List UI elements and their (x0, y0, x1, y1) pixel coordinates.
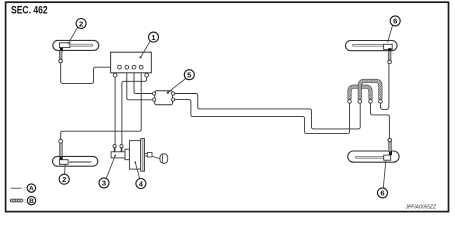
rear-right lower hose body (348, 151, 399, 162)
wire: actuator port4 to front-left lower hose (61, 69, 142, 139)
front-left lower hose body (53, 156, 98, 166)
label 2 (lower) leader (64, 164, 67, 174)
label 1 (149, 32, 159, 42)
legend coil-B symbol (10, 199, 23, 202)
master cylinder body (111, 152, 125, 158)
master cylinder port A stem (114, 148, 116, 152)
booster pushrod end block (147, 152, 152, 157)
svg-text::: : (24, 186, 26, 193)
front-left upper hose coil (59, 51, 62, 59)
U5 left-bottom port (153, 98, 156, 101)
svg-text:SEC. 462: SEC. 462 (11, 5, 48, 17)
front-left lower hose banjo fitting (59, 160, 68, 165)
wire: junction U5 right-bottom port to rear tube leg1 (174, 100, 349, 134)
label 5 leader (168, 78, 186, 92)
svg-text:6: 6 (393, 17, 397, 26)
front-left upper hose banjo fitting (60, 43, 70, 48)
wire: actuator right corner port to master cylinder port B (122, 76, 147, 145)
front-left upper hose body (53, 40, 99, 50)
rear tube U2 (hatched, legs 2 and 4) (360, 81, 381, 99)
legend line-A symbol (11, 187, 22, 189)
booster pushrod (145, 153, 148, 156)
leg1 fitting (349, 99, 351, 101)
clevis link line (152, 156, 160, 159)
svg-text:3: 3 (102, 179, 106, 188)
brake booster flange (141, 139, 145, 172)
wire: actuator port3 to junction U5 left-top port (134, 69, 152, 94)
rear-right upper hose tube (353, 44, 385, 46)
front-left lower hose end fitting (59, 139, 63, 143)
wire: actuator port1 to front-left upper hose (61, 63, 120, 84)
master cylinder port B (120, 145, 123, 148)
label 6 (lower) leader (383, 161, 386, 188)
master cylinder port B stem (121, 148, 123, 152)
label 4 (136, 179, 146, 189)
wire: junction U5 right-top port to rear tube leg2 (174, 94, 360, 129)
rear-right upper hose end fitting (388, 60, 392, 64)
rear-right lower hose fitting block (384, 155, 391, 160)
front-left upper hose end fitting (59, 59, 63, 63)
U5 right-top port (172, 92, 175, 95)
U5 right-bottom port (172, 98, 175, 101)
actuator right corner mount (145, 73, 149, 77)
label 5 (184, 70, 194, 80)
actuator left corner mount (113, 73, 117, 77)
ABS actuator U1 box (111, 52, 152, 73)
svg-text::: : (24, 198, 26, 205)
wire: rear tube leg4 up to rear-right upper hose coil (380, 64, 389, 110)
svg-text:6: 6 (380, 189, 384, 198)
svg-text:B: B (29, 198, 34, 205)
rear-right upper hose body (346, 41, 398, 51)
rear-right lower hose clamp (black) (389, 151, 392, 155)
label 6 (upper) (390, 16, 400, 26)
label 2 (lower) (59, 174, 69, 184)
rear-right lower hose end fitting (388, 138, 392, 142)
front-left upper hose clamp (black) (60, 48, 63, 52)
label 3 leader (106, 155, 115, 178)
legend label A (27, 184, 35, 192)
clevis bushing (160, 154, 168, 164)
svg-text:JPFIA0065ZZ: JPFIA0065ZZ (405, 205, 437, 211)
master cylinder port A (113, 145, 116, 148)
rear-right upper hose coil (388, 51, 391, 60)
label 4 leader (135, 162, 139, 178)
leg4 fitting (380, 99, 382, 101)
front-left upper hose tube (70, 44, 93, 46)
wire: actuator left corner port to master cylinder port A (114, 76, 116, 145)
booster connector block (125, 149, 129, 160)
rear-right lower hose tube (356, 156, 385, 158)
U5 left-top port (153, 92, 156, 95)
actuator port 4 (139, 65, 143, 69)
junction connector U5 box (155, 91, 173, 105)
label 2 (upper) leader (68, 27, 78, 44)
actuator port 2 (125, 65, 129, 69)
svg-text:2: 2 (62, 175, 66, 184)
label 6 (lower) (378, 188, 388, 198)
brake booster drum (129, 141, 140, 170)
rear-right lower hose coil (388, 142, 391, 151)
wire: rear tube leg3 down to rear-right lower hose coil (371, 104, 390, 139)
label 3 (99, 178, 109, 188)
leg3 fitting (370, 99, 372, 101)
leg2 fitting (359, 99, 361, 101)
wire: actuator port2 to junction U5 left-bottom port (127, 69, 153, 100)
rear-right upper hose fitting block (384, 44, 393, 49)
actuator port 3 (132, 65, 136, 69)
front-left lower hose clamp (black) (60, 156, 63, 160)
label 1 leader (141, 41, 150, 57)
front-left lower hose coil (59, 143, 62, 156)
svg-text:2: 2 (79, 19, 83, 28)
front-left lower hose tube (68, 161, 91, 163)
rear tube U1 (hatched, legs 1 and 3) (350, 87, 371, 100)
label 6 (upper) leader (388, 25, 393, 42)
legend label B (27, 196, 35, 204)
actuator port 1 (118, 65, 122, 69)
svg-text:A: A (29, 186, 34, 193)
rear-right upper hose clamp (black) (388, 48, 391, 51)
label 2 (upper) (76, 19, 86, 29)
